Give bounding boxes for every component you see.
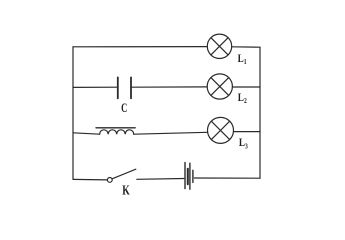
wire row3 right segment bbox=[234, 131, 261, 133]
lamp L1 bbox=[207, 34, 231, 58]
svg-text:L1: L1 bbox=[238, 53, 247, 66]
svg-text:L2: L2 bbox=[238, 92, 247, 105]
switch K pivot bbox=[107, 178, 112, 183]
svg-text:K: K bbox=[122, 182, 130, 198]
svg-text:C: C bbox=[121, 102, 127, 116]
wire top row left of L1 bbox=[73, 46, 207, 48]
wire bottom middle segment bbox=[137, 178, 184, 181]
wire row2 right segment bbox=[232, 86, 260, 88]
wire right vertical bbox=[259, 47, 261, 178]
inductor core bar bbox=[96, 127, 135, 129]
wire top row right of L1 bbox=[232, 46, 260, 48]
wire row3 left segment bbox=[73, 133, 100, 134]
inductor coil bbox=[100, 130, 134, 134]
wire row3 middle segment bbox=[134, 132, 208, 134]
wire bottom left segment bbox=[73, 178, 107, 181]
wire row2 middle segment bbox=[132, 86, 208, 88]
wire row2 left segment bbox=[73, 86, 117, 88]
battery cell plates bbox=[185, 163, 193, 190]
wire left vertical bbox=[72, 47, 74, 180]
wire bottom right segment bbox=[194, 177, 260, 179]
lamp L2 bbox=[207, 74, 232, 99]
svg-text:L3: L3 bbox=[239, 137, 248, 150]
capacitor C bbox=[118, 77, 131, 98]
switch K lever bbox=[112, 169, 136, 179]
lamp L3 bbox=[208, 117, 234, 143]
